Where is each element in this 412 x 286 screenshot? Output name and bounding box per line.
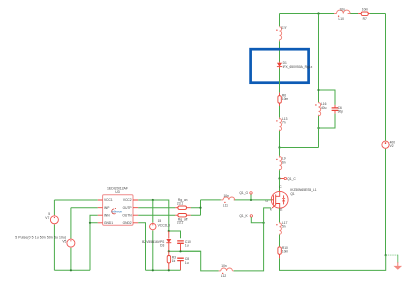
svg-text:VCC2L3: VCC2L3 [158,223,170,227]
node junction mid C10 [179,250,181,252]
capacitor C6 [332,105,344,114]
svg-text:OUTN: OUTN [122,213,132,217]
capacitor C10 [177,240,191,252]
svg-text:Q1_C: Q1_C [287,177,296,181]
svg-text:Q1: Q1 [290,192,295,196]
wire emitter [279,208,281,222]
svg-text:L12: L12 [221,274,227,278]
svg-text:40u: 40u [321,106,327,110]
svg-text:V7: V7 [45,216,49,220]
wire [279,131,281,148]
wire [279,148,281,156]
node junction snubber bottom [317,127,319,129]
wire gate merge vertical [200,200,202,215]
resistor Rg_off [175,214,190,225]
svg-text:10m: 10m [282,249,289,253]
diode D1 IFX_650V50A [277,61,313,69]
svg-text:10m: 10m [282,97,289,101]
voltage source V5 pulse [15,208,75,271]
node junction VCC2 tap [152,199,154,201]
wire OUTN row [138,214,200,216]
inductor L12 [219,264,234,278]
svg-text:R7: R7 [363,17,367,21]
svg-text:Q1_G: Q1_G [239,191,248,195]
wire bottom right rail [280,255,386,270]
resistor R7 [358,8,370,21]
svg-text:V5: V5 [62,239,66,243]
svg-text:23.1: 23.1 [177,220,184,224]
svg-text:VCC2: VCC2 [123,198,132,202]
svg-text:INP: INP [104,206,109,210]
svg-text:5 Pulse(0 5 1u 50n 50n 5u 10u): 5 Pulse(0 5 1u 50n 50n 5u 10u) [15,235,66,239]
svg-text:1u: 1u [185,261,189,265]
wire [279,41,281,61]
wire GND2 [138,223,145,270]
svg-text:23.1: 23.1 [177,202,184,206]
svg-text:1k: 1k [172,259,176,263]
inductor L16 [315,102,326,116]
svg-text:L10: L10 [339,17,345,21]
wire left branch top [279,14,281,27]
svg-text:IFX_650V50A_Rg1x: IFX_650V50A_Rg1x [283,65,313,69]
wire clamp top [169,231,181,238]
node junction mid D3 [168,250,170,252]
node junction V5 rail [70,269,72,271]
voltage source V2 [382,140,395,148]
svg-text:10n: 10n [340,8,346,12]
svg-text:6n: 6n [282,160,286,164]
transistor Q1 IKZ50N65ES5_L1 [265,185,316,212]
inductor L9 [276,156,286,170]
wire gate row [201,199,272,201]
wire [279,235,281,247]
svg-text:V2: V2 [390,144,394,148]
wire C6 top [319,90,336,105]
op-amp U3 gate driver 1EDI20I12AF [98,187,139,226]
node junction kelvin [263,222,265,224]
node junction gate [250,199,252,201]
ground [394,262,403,269]
inductor L13 [276,117,287,131]
svg-text:5n: 5n [282,224,286,228]
wire [318,116,320,148]
resistor R6 [278,93,289,106]
diode D3 zener BZV55B16VPS [142,231,171,251]
resistor R10 [278,246,289,258]
inductor L8 [276,26,287,41]
svg-text:30p: 30p [338,110,344,114]
voltage source V7 [45,200,58,270]
svg-text:OUTP: OUTP [123,206,132,210]
wire C6 bottom [319,114,336,128]
wire top bus [280,13,386,15]
node junction [278,146,280,148]
wire snubber branch vertical [318,14,320,103]
wire collector lead [279,179,281,192]
svg-text:infineon: infineon [112,210,123,214]
wire clamp mid row [169,250,201,252]
wire ground stub [386,255,398,263]
svg-text:10m: 10m [362,8,369,12]
inductor L11 [221,194,235,208]
wire [279,69,281,93]
svg-text:10n: 10n [224,194,230,198]
node Q1_K port [239,214,263,223]
node Q1_G port [239,191,252,200]
wire INP row [71,207,98,209]
wire input ground rail [54,269,90,271]
svg-text:1u: 1u [185,244,189,248]
capacitor C8 [177,257,189,270]
svg-text:3n: 3n [284,26,288,29]
wire kelvin vertical [234,208,271,271]
node junction bottom right [385,254,387,256]
node junction gate merge [199,207,201,209]
node Q1_C port [281,177,297,181]
svg-text:GND2: GND2 [123,221,132,225]
wire [279,170,281,178]
svg-text:10n: 10n [221,264,227,268]
svg-text:INN: INN [104,213,110,217]
wire [279,106,281,118]
svg-text:D3: D3 [160,244,164,248]
resistor Rg_on [175,198,190,209]
node junction top [317,12,319,14]
node junction rail VCC2L3 [152,269,154,271]
svg-text:U3: U3 [115,190,120,194]
svg-text:VCC1: VCC1 [104,198,113,202]
svg-text:GND1: GND1 [104,221,113,225]
node junction INN/GND1 [89,222,91,224]
wire output ground rail [146,269,181,271]
highlight box (blue) [251,49,309,82]
inductor L17 [276,221,287,235]
wire right vertical [385,14,387,256]
wire OUTP row [138,207,200,209]
wire VCC2 row [138,200,169,231]
wire VCC1 row [54,199,97,201]
node junction clamp top [168,230,170,232]
resistor R3 [167,251,176,270]
inductor L10 [334,8,350,21]
node junction Q1_C [278,177,280,179]
wire kelvin to clamp [181,251,219,271]
svg-text:Q1_K: Q1_K [239,214,248,218]
voltage source VCC2L3 [150,200,170,270]
svg-text:L11: L11 [223,204,228,208]
node junction rail R3 [168,269,170,271]
wire INN + GND1 [90,215,98,270]
node junction snubber top [317,89,319,91]
svg-text:7n: 7n [282,120,286,124]
wire L16 return [280,147,319,149]
